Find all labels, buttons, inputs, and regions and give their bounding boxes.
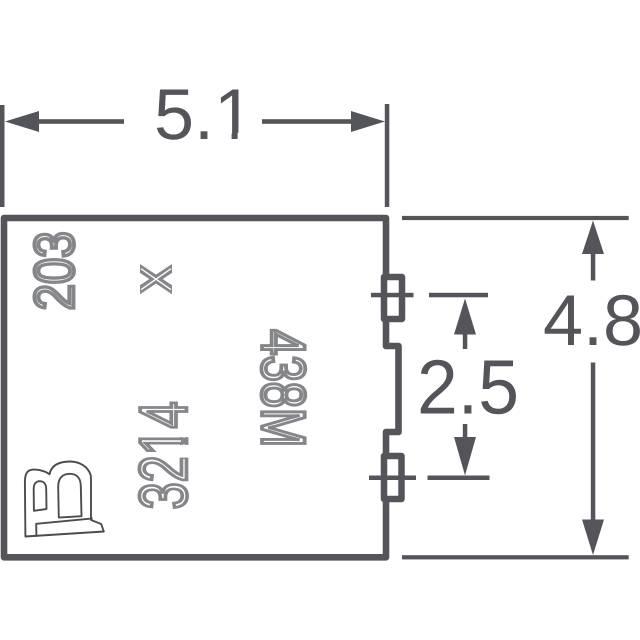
Bourns logo inner gap line	[36, 518, 92, 536]
component body outline	[4, 218, 399, 557]
dim 2.5 lower stem	[463, 424, 468, 439]
dim 5.1 left extension line	[0, 105, 5, 207]
dim 2.5 down arrowhead	[454, 437, 476, 476]
svg-text:5.1: 5.1	[154, 75, 254, 155]
upper pin terminal	[384, 277, 402, 319]
Bourns logo small arch hole	[34, 481, 47, 511]
dim 2.5 lower tick line	[369, 476, 416, 481]
dim 4.8 upper stem	[591, 252, 596, 281]
svg-text:438M: 438M	[248, 329, 317, 447]
svg-text:2.5: 2.5	[417, 345, 519, 431]
masks to remove foot serif of digit 1	[179, 429, 190, 437]
dim 2.5 up arrowhead	[454, 299, 476, 335]
dim 2.5 upper tick line	[371, 293, 414, 298]
dim 5.1 line right segment	[262, 119, 357, 124]
dim 5.1 right extension line	[385, 104, 390, 207]
svg-text:203: 203	[23, 231, 86, 310]
lower pin terminal	[384, 456, 402, 499]
dim 2.5 upper stem	[463, 333, 468, 349]
svg-text:4.8: 4.8	[543, 281, 640, 361]
svg-text:3214: 3214	[127, 401, 202, 509]
dim 4.8 up arrowhead	[582, 221, 604, 255]
dim 5.1 left arrowhead	[5, 111, 39, 132]
masks to remove foot serif of digit 1	[217, 133, 232, 141]
dim 4.8 bottom extension line	[402, 555, 629, 559]
dim 5.1 right arrowhead	[351, 111, 385, 132]
dim 4.8 top extension line	[402, 216, 629, 220]
dim 4.8 lower stem	[591, 363, 596, 521]
dim 5.1 line left segment	[30, 119, 124, 124]
Bourns logo big arch hole	[58, 474, 81, 518]
dim 4.8 down arrowhead	[582, 520, 604, 556]
Bourns logo B outer contour	[25, 462, 104, 537]
marking text X (two crossing bars)	[140, 264, 172, 294]
